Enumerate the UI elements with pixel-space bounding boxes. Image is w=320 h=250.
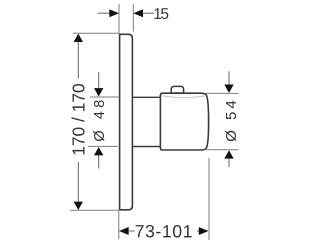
dimension 73-101: left arrow [119, 227, 129, 235]
dimension 15: right arrow [133, 9, 143, 17]
valve stem sleeve top edge [133, 96, 160, 98]
valve stem sleeve bottom edge [133, 146, 160, 148]
handle body [160, 93, 208, 150]
dimension 15: right extension line [132, 4, 134, 32]
svg-text:Ø 48: Ø 48 [92, 96, 108, 141]
dimension 170/170: top extension line [73, 32, 120, 34]
dimension 170/170: bottom arrow [74, 202, 83, 210]
dimension d54: bottom arrow (points up) [224, 150, 233, 158]
svg-text:Ø 54: Ø 54 [223, 97, 240, 142]
handle top face shading line [162, 96, 207, 98]
dimension 15: left arrow [109, 9, 119, 17]
dimension d48: top dimension line tail [98, 72, 100, 89]
dimension 73-101: left dimension line stub [128, 230, 135, 232]
svg-text:73-101: 73-101 [135, 221, 193, 241]
dimension d54: top arrow (points down) [224, 85, 233, 93]
dimension 15: right dimension line tail [143, 12, 155, 14]
dimension d48: top arrow (points down) [94, 88, 103, 96]
dimension 15: left extension line [118, 4, 120, 33]
dimension d48: bottom arrow (points up) [94, 147, 103, 155]
dimension 73-101: left extension line [118, 211, 120, 239]
escutcheon wall plate (side view) [120, 34, 133, 210]
dimension d54: top extension line [206, 92, 239, 94]
dimension d48: bottom extension line [88, 145, 118, 147]
dimension d54: top dimension line tail [228, 71, 230, 87]
dimension 170/170: top arrow [74, 34, 83, 42]
dimension 170/170: dimension line upper segment [77, 42, 79, 79]
dimension d48: top extension line [90, 96, 120, 98]
handle safety button [171, 86, 183, 93]
dimension 73-101: right arrow [199, 227, 209, 235]
dimension 170/170: bottom extension line [70, 209, 119, 211]
dimension 73-101: right extension line [208, 158, 210, 240]
dimension d54: bottom dimension line tail [228, 158, 230, 167]
dimension d54: bottom extension line [206, 149, 239, 151]
svg-text:15: 15 [153, 6, 169, 23]
dimension d48: bottom dimension line tail [98, 156, 100, 169]
svg-text:170 / 170: 170 / 170 [68, 83, 88, 156]
dimension 73-101: right dimension line stub [197, 230, 200, 232]
dimension 170/170: dimension line lower segment [77, 162, 79, 202]
dimension 15: left dimension line tail [98, 12, 111, 14]
